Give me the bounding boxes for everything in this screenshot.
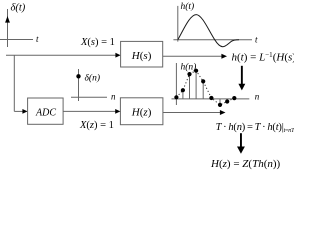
svg-text:X(z) = 1: X(z) = 1 [79, 120, 114, 131]
svg-text:h(n): h(n) [181, 62, 197, 73]
svg-text:X(s) = 1: X(s) = 1 [80, 37, 115, 48]
svg-text:ADC: ADC [35, 108, 56, 119]
svg-text:δ(n): δ(n) [85, 73, 101, 84]
svg-text:δ(t): δ(t) [11, 3, 26, 14]
svg-text:h(t) = L−1(H(s)): h(t) = L−1(H(s)) [232, 51, 295, 64]
svg-text:H(s): H(s) [131, 50, 152, 62]
svg-text:n: n [255, 92, 260, 102]
svg-text:n: n [111, 92, 116, 102]
svg-text:T · h(n) = T · h(t)|t=nT: T · h(n) = T · h(t)|t=nT [216, 122, 294, 134]
svg-text:H(z) = Z(Th(n)): H(z) = Z(Th(n)) [210, 158, 281, 170]
svg-text:h(t): h(t) [181, 1, 195, 12]
svg-text:H(z): H(z) [131, 107, 152, 119]
